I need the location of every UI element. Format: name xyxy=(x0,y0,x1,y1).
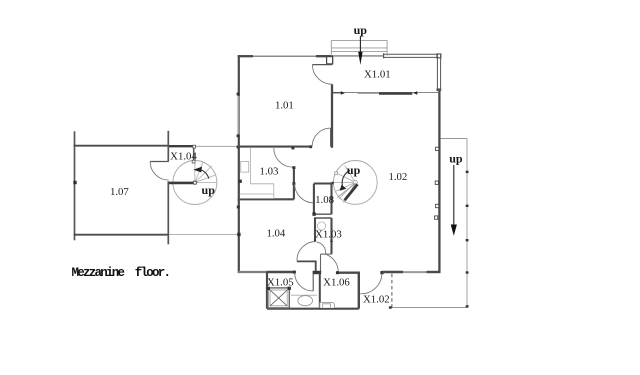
deck right thin line xyxy=(466,139,468,308)
node door D3 hinge xyxy=(291,147,294,150)
shower tray X diagonal 2 xyxy=(270,290,288,306)
wc X1.03 jog wall vertical xyxy=(320,254,322,273)
shower tray X diagonal 1 xyxy=(270,290,288,306)
outside stair bump tread line 1 xyxy=(331,47,387,49)
furniture desk edge vertical 1.03 xyxy=(273,184,275,199)
svg-text:up: up xyxy=(449,151,463,165)
entry X1.01 right window line1 xyxy=(436,54,438,89)
door D4 arc hall xyxy=(295,184,314,203)
bath X1.05 left wall xyxy=(266,272,268,309)
node on left wall y94 xyxy=(237,93,240,96)
spiral stair S2 arrow arc xyxy=(342,170,350,187)
node X1.03 right wall mid xyxy=(330,239,333,242)
hall jog wall horizontal xyxy=(297,260,317,262)
deck arrow shaft xyxy=(453,165,455,225)
entry X1.01 bottom track xyxy=(333,92,438,94)
wall 1.01/1.03 divider xyxy=(238,146,312,148)
wc X1.03 toilet circle xyxy=(317,222,325,230)
room 1.01 top wall right cap xyxy=(316,55,333,57)
entry X1.01 right window bottom cap xyxy=(437,88,442,91)
wc X1.03 jog wall horizontal xyxy=(321,253,332,255)
sliding door arrowhead 1 xyxy=(341,91,345,95)
entry X1.01 top window left cap xyxy=(383,53,385,58)
window post node y217 xyxy=(435,216,438,219)
entry arrow shaft xyxy=(359,36,361,52)
outside stair bump right edge xyxy=(386,40,388,56)
room X1.06 top wall xyxy=(337,272,359,274)
column rect X1.01 corner xyxy=(327,57,333,64)
spiral stair S1 arrow arc xyxy=(201,170,209,179)
main bottom wall west dark segment xyxy=(267,271,295,273)
hall stair wall segment xyxy=(332,182,334,185)
entry X1.01 bottom wall west xyxy=(333,92,341,94)
sliding door arrowhead 2 xyxy=(413,91,417,95)
wc platform line X1.05 xyxy=(291,294,317,296)
main bottom wall east segment 2 xyxy=(427,271,441,273)
node on left wall y206 xyxy=(237,206,240,209)
tick deck corner xyxy=(466,305,469,307)
wc X1.03 top wall xyxy=(314,217,332,219)
node 1.08 bottom left xyxy=(312,212,315,215)
furniture bed edge horizontal 1.03 xyxy=(251,183,274,185)
node wall cap x311 xyxy=(310,145,313,148)
door D7 S-curve X1.06 xyxy=(317,242,338,272)
node door D9 hinge cap xyxy=(380,271,383,274)
node on left wall y182 xyxy=(239,180,242,183)
wire reference line 1.07 top to main xyxy=(194,145,238,147)
door D1 leaf xyxy=(312,64,332,66)
deck bottom thin line xyxy=(389,307,467,309)
node shower corner TL xyxy=(267,287,270,290)
wire reference line 1.07 bottom to main xyxy=(169,234,238,236)
door D8 arc X1.05 xyxy=(295,273,313,291)
door D2 leaf xyxy=(330,128,332,147)
wc X1.03 left wall xyxy=(314,218,316,242)
svg-text:1.07: 1.07 xyxy=(110,186,129,198)
tick deck y272 xyxy=(466,271,469,273)
furniture bed edge vertical 1.03 xyxy=(250,148,252,184)
svg-text:up: up xyxy=(347,163,361,177)
svg-text:1.02: 1.02 xyxy=(388,171,407,183)
node on 1.03 right wall top xyxy=(292,166,295,169)
door D8 leaf X1.05 xyxy=(312,273,314,291)
closet X1.04 top wall xyxy=(169,145,194,147)
node bottom wall cluster xyxy=(313,271,322,274)
svg-text:up: up xyxy=(354,23,368,37)
svg-text:1.03: 1.03 xyxy=(260,165,279,177)
spiral stair S2 circle xyxy=(333,161,377,205)
room X1.06 bottom wall xyxy=(320,308,359,310)
svg-text:X1.02: X1.02 xyxy=(363,293,390,305)
furniture pillow 1.03 xyxy=(241,162,249,173)
shower tray inner X1.05 xyxy=(270,290,287,306)
wc X1.03 right wall xyxy=(330,218,332,254)
svg-text:1.04: 1.04 xyxy=(266,227,285,239)
spiral stair S1 treads xyxy=(195,161,217,183)
outside stair bump left edge xyxy=(330,40,332,56)
room 1.07 right wall lower segment xyxy=(167,181,169,244)
corridor 1.08 right wall xyxy=(330,184,332,215)
porch dashed line X1.02 xyxy=(391,274,393,308)
room 1.07 bottom wall xyxy=(74,234,169,236)
door D9 arc X1.02 exit xyxy=(360,274,382,294)
spiral stair S1 arrowhead xyxy=(193,167,202,173)
main right wall xyxy=(438,90,440,273)
entry X1.01 top window line2 xyxy=(384,56,439,58)
node on left wall y136 xyxy=(237,134,240,137)
main bottom wall west light segment xyxy=(238,271,267,273)
shower tray outer X1.05 xyxy=(268,288,289,308)
svg-text:up: up xyxy=(202,183,216,197)
svg-text:X1.01: X1.01 xyxy=(364,68,391,80)
spiral stair S2 treads xyxy=(333,165,355,198)
door D5 arc xyxy=(150,162,169,181)
node on left wall y234 xyxy=(237,233,240,236)
tick deck y171 xyxy=(466,171,469,173)
entry arrowhead xyxy=(358,52,362,65)
room 1.07 left wall xyxy=(74,131,76,240)
door D6 arc X1.03 xyxy=(297,242,316,261)
main bottom wall east segment 1 xyxy=(382,271,403,273)
furniture shelf lower edge 1.03 xyxy=(240,197,274,199)
divider X1.05/X1.06 wall xyxy=(319,273,321,309)
room 1.03 right wall xyxy=(293,167,295,199)
room 1.01 top wall left cap xyxy=(238,55,253,57)
room 1.07 top wall xyxy=(74,145,169,147)
sink fixture X1.06 xyxy=(320,302,335,308)
node square stair S2 edge xyxy=(335,172,338,175)
entry X1.01 top thin wall xyxy=(333,55,384,57)
node bottom wall cap294 xyxy=(293,271,296,274)
entry X1.01 top window line1 xyxy=(384,53,439,55)
furniture desk edge horizontal 1.03 xyxy=(240,193,274,195)
tick deck y240 xyxy=(466,239,469,241)
window post node y206 xyxy=(436,204,439,207)
node square stair hub xyxy=(194,181,197,184)
node square X1.04 lower xyxy=(192,160,195,163)
tick deck y206 xyxy=(466,205,469,207)
outside stair bump tread line 2 xyxy=(331,51,387,53)
main bottom wall window xyxy=(403,271,427,273)
node on left wall y147 xyxy=(237,146,240,149)
room 1.01 top wall window xyxy=(253,55,316,57)
deck top thin line xyxy=(441,138,468,140)
bath X1.05 bottom wall xyxy=(267,308,321,310)
spiral stair S1 circle xyxy=(173,161,217,205)
svg-text:1.08: 1.08 xyxy=(315,194,334,206)
door D3 arc xyxy=(274,148,293,167)
svg-text:X1.06: X1.06 xyxy=(323,277,350,289)
svg-text:X1.03: X1.03 xyxy=(315,229,342,241)
corridor 1.08 top wall xyxy=(314,182,332,184)
room 1.03 bottom wall xyxy=(238,198,294,200)
sink basin X1.06 xyxy=(323,304,331,308)
room X1.06 right wall xyxy=(358,272,360,309)
spiral stair S1 hub xyxy=(193,181,197,185)
node on 1.03 right wall door4 xyxy=(292,182,295,185)
spiral stair S1 wall to hub xyxy=(169,182,195,185)
sliding door panel xyxy=(379,92,412,94)
spiral stair S2 hub xyxy=(353,180,357,184)
corridor 1.08 left wall xyxy=(313,184,315,215)
room 1.07 right wall upper segment xyxy=(167,131,169,162)
spiral stair S2 arrowhead xyxy=(340,185,347,191)
closet X1.04 right wall xyxy=(193,146,195,161)
main building left wall xyxy=(238,55,240,273)
node square X1.04 top xyxy=(193,145,196,148)
corridor 1.08 bottom wall xyxy=(314,213,332,215)
window corner mullion square xyxy=(437,54,441,58)
window post node y148 xyxy=(436,147,439,150)
door D1 arc xyxy=(312,65,332,85)
room 1.01 east wall lower xyxy=(331,84,333,148)
door D2 arc xyxy=(312,128,331,147)
node X1.03 left wall bottom xyxy=(314,239,317,242)
sliding door mid rail xyxy=(358,92,380,94)
main left wall window lighter segment xyxy=(238,96,240,135)
node on 1.07 left wall xyxy=(73,181,76,184)
svg-text:1.01: 1.01 xyxy=(275,100,294,112)
node shower corner xyxy=(288,287,291,290)
node X1.06 top wall west cap xyxy=(336,271,339,274)
spiral stair S2 wedge xyxy=(337,183,355,198)
svg-text:Mezzanine floor.: Mezzanine floor. xyxy=(72,266,170,280)
tick porch bottom left xyxy=(389,306,392,308)
door D5 leaf 1.07 to stair xyxy=(150,161,169,163)
deck arrowhead xyxy=(451,225,457,236)
entry X1.01 right window line2 xyxy=(440,54,442,89)
room 1.01 east wall upper xyxy=(331,56,333,65)
toilet ellipse X1.05 xyxy=(298,296,313,306)
hall jog wall vertical xyxy=(315,261,317,273)
outside stair bump top line xyxy=(331,39,387,41)
window post node y182 xyxy=(435,181,438,184)
